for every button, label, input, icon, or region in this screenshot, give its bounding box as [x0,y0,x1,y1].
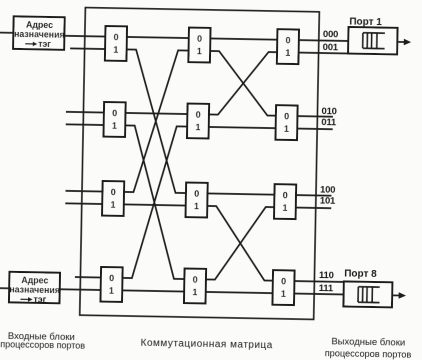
switch S12 [104,102,126,137]
svg-text:010: 010 [321,106,336,117]
svg-text:0: 0 [281,276,286,286]
svg-text:0: 0 [193,274,198,284]
svg-text:тэг: тэг [33,294,46,304]
svg-text:0: 0 [197,34,202,44]
svg-text:Коммутационная матрица: Коммутационная матрица [141,338,273,351]
svg-text:0: 0 [283,190,288,200]
svg-text:процессоров портов: процессоров портов [0,339,85,351]
wire: output 110 [294,280,343,283]
svg-text:1: 1 [195,122,200,132]
svg-text:0: 0 [114,32,119,42]
switching matrix outline [80,8,320,320]
switch S32 [275,105,297,140]
wire: S11 out1 to S23 in0 [124,49,189,193]
svg-text:0: 0 [286,35,291,45]
wire: output 111 to port 8 queue [294,293,343,296]
svg-text:1: 1 [281,289,286,299]
wire: S24 out1 to S34 in1 [206,292,273,293]
port 1 queue icon [363,33,385,49]
wire: S22 out0 to S31 in1 [209,51,277,116]
caption: output port processor blocks [325,336,412,360]
svg-text:101: 101 [320,196,336,207]
port 1 output arrow [397,41,404,43]
svg-text:процессоров портов: процессоров портов [325,348,412,360]
wire: S24 out0 to S33 in1 [206,206,274,281]
wire: output 001 [299,52,348,55]
svg-text:1: 1 [285,48,290,58]
svg-text:Выходные блоки: Выходные блоки [331,336,405,348]
wire: input stub to address box 1 [0,32,13,34]
wire: input stub to address box 2 [0,287,9,289]
svg-text:0: 0 [109,273,114,283]
svg-text:0: 0 [112,108,117,118]
svg-text:1: 1 [284,124,289,134]
svg-text:0: 0 [111,187,116,197]
switch S24 [184,269,206,304]
switch S21 [188,28,210,63]
wire: output 000 to port 1 queue [299,39,348,42]
wire: input stub to S14 input 0 [75,276,101,278]
switch S14 [100,267,122,302]
wire: output 100 [296,194,331,197]
wire: S23 out1 to S34 in0 [206,206,274,281]
svg-text:1: 1 [110,199,115,209]
svg-text:0: 0 [194,188,199,198]
svg-text:100: 100 [320,185,335,196]
wire: S22 out1 to S32 in1 [209,127,276,128]
switch S11 [105,26,127,61]
wire: input stub to S13 input 0 [66,190,103,193]
wire: S21 out0 to S31 in0 [210,38,277,39]
wire: S14 out1 to S24 in1 [122,290,184,291]
svg-text:1: 1 [194,201,199,211]
switch S34 [272,270,294,305]
switch S23 [186,183,208,218]
address box 2 [9,272,60,305]
svg-text:1: 1 [109,285,114,295]
wire: input stub to S11 input 1 [70,47,105,50]
svg-text:000: 000 [323,29,338,40]
switch S13 [102,181,124,216]
svg-text:1: 1 [197,46,202,56]
wire: S13 out0 to S21 in1 [124,49,189,193]
svg-text:0: 0 [196,110,201,120]
svg-text:Порт 8: Порт 8 [344,268,377,280]
wire: S11 out0 to S21 in0 [127,37,189,38]
svg-text:110: 110 [319,270,334,281]
wire: S21 out1 to S32 in0 [209,51,277,116]
wire: address box 1 to switch S11 input 0 [64,35,105,38]
wire: S23 out0 to S33 in0 [207,193,274,194]
address box 1 [13,16,65,49]
switch S22 [187,104,209,139]
port 8 queue box [343,281,392,307]
switch S31 [277,29,299,64]
svg-text:тэг: тэг [38,39,51,49]
wire: output 101 [296,207,331,210]
wire: S12 out0 to S22 in0 [125,113,187,114]
svg-text:111: 111 [319,283,334,294]
port 1 queue box [348,27,397,54]
port 8 queue icon [358,287,380,303]
wire: S14 out0 to S22 in1 [122,125,187,279]
svg-text:1: 1 [112,120,117,130]
svg-text:0: 0 [284,111,289,121]
wire: address box 2 to switch S14 input 1 [60,288,101,291]
wire: input stub to S12 input 0 [66,111,104,114]
svg-text:1: 1 [192,287,197,297]
wire: S12 out1 to S24 in0 [122,125,187,279]
switch S33 [274,184,296,219]
svg-text:001: 001 [323,42,339,53]
svg-text:1: 1 [113,44,118,54]
svg-text:1: 1 [282,203,287,213]
port 8 output arrow [392,294,399,296]
wire: input stub to S13 input 1 [65,202,102,205]
wire: input stub to S12 input 1 [66,123,104,126]
svg-text:011: 011 [321,117,337,128]
caption: input port processor blocks [0,331,85,351]
wire: output 011 [297,128,332,131]
wire: S13 out1 to S23 in1 [124,204,186,205]
wire: output 010 [297,115,332,118]
